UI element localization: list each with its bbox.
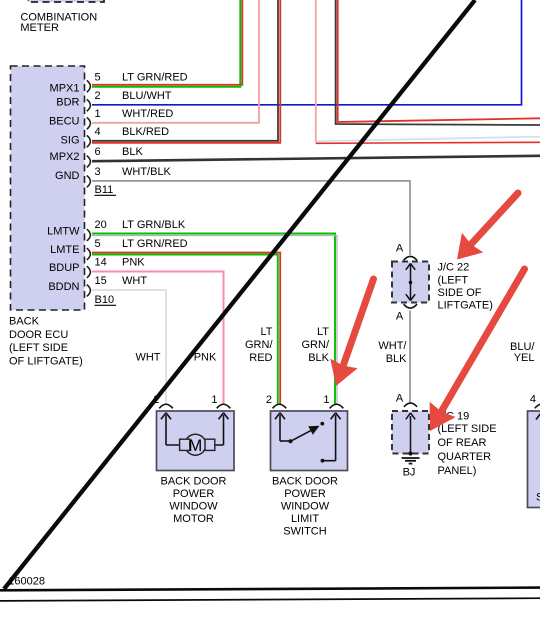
switch pivot wire <box>280 440 291 442</box>
switch caption <box>272 476 338 538</box>
svg-text:15: 15 <box>95 275 107 287</box>
svg-text:WINDOW: WINDOW <box>281 501 330 513</box>
motor internal wire <box>166 444 224 446</box>
right edge pin 4 connector arc <box>535 404 540 408</box>
svg-text:LT GRN/BLK: LT GRN/BLK <box>122 219 186 231</box>
J/C 22 bottom connector arc <box>404 304 417 308</box>
svg-text:WHT: WHT <box>135 352 160 364</box>
svg-text:WHT/: WHT/ <box>378 340 407 352</box>
svg-text:20: 20 <box>95 219 107 231</box>
svg-text:WHT: WHT <box>122 275 147 287</box>
J/C 22 caption <box>438 262 493 312</box>
pin hooks at ECU edge <box>87 80 91 296</box>
svg-text:1: 1 <box>211 394 217 406</box>
svg-text:BDUP: BDUP <box>49 262 80 274</box>
svg-text:160028: 160028 <box>8 575 45 587</box>
svg-text:BLK: BLK <box>122 146 143 158</box>
wire WHT/RED (pin 1 BECU) <box>92 0 259 123</box>
svg-text:LMTW: LMTW <box>47 225 80 237</box>
svg-text:BLK: BLK <box>308 352 329 364</box>
back door ECU box <box>11 66 85 310</box>
svg-text:WINDOW: WINDOW <box>169 501 218 513</box>
svg-text:MOTOR: MOTOR <box>173 513 214 525</box>
svg-text:BDR: BDR <box>56 97 79 109</box>
connector id B11 <box>95 184 117 196</box>
svg-text:A: A <box>396 243 404 255</box>
switch pin 1 internal arrow <box>323 413 341 461</box>
wire BLK/RED (pin 4 SIG) black part <box>92 0 278 141</box>
back door power window motor box <box>157 411 235 471</box>
J/C 19 internal arrow <box>406 413 415 454</box>
wire WHT/RED at right edge, red stripe <box>316 142 540 143</box>
svg-text:14: 14 <box>95 257 107 269</box>
wire BLK/RED at right edge, red stripe <box>338 0 540 122</box>
label LT GRN/RED column <box>245 326 273 364</box>
svg-text:LIMIT: LIMIT <box>291 513 319 525</box>
wire BLK/RED at right edge, black part <box>336 0 540 125</box>
svg-text:BLK/RED: BLK/RED <box>122 126 169 138</box>
svg-text:SIG: SIG <box>61 134 80 146</box>
svg-text:LMTE: LMTE <box>50 244 79 256</box>
svg-text:GND: GND <box>55 170 80 182</box>
wire WHT (pin 15 BDDN) <box>92 290 166 404</box>
motor pin 2 connector arc <box>159 404 173 408</box>
wire LT GRN/RED (pin 5 MPX1) red stripe <box>92 0 242 85</box>
svg-text:B10: B10 <box>95 294 115 306</box>
svg-text:(LEFT: (LEFT <box>438 275 469 287</box>
red annotation arrow 1 (to J/C 22) <box>457 193 518 260</box>
svg-text:SIDE OF: SIDE OF <box>438 287 482 299</box>
label LT GRN/BLK column <box>302 326 330 364</box>
wire WHT/BLK between J/C 22 and J/C 19 <box>409 311 411 403</box>
svg-text:MPX1: MPX1 <box>50 82 80 94</box>
svg-text:BACK DOOR: BACK DOOR <box>160 476 226 488</box>
J/C 22 top connector arc <box>404 256 417 260</box>
switch upper contact dot <box>320 422 324 426</box>
svg-text:BJ: BJ <box>403 467 416 479</box>
J/C 22 internal arrows <box>406 264 415 301</box>
combination meter box (top, mostly offscreen) <box>28 0 104 2</box>
svg-text:1: 1 <box>95 108 101 120</box>
red annotation arrow 3 (to switch pin 1) <box>330 279 373 386</box>
wire WHT/BLK (pin 3 GND) to J/C 22 <box>92 181 410 255</box>
svg-text:5: 5 <box>95 238 101 250</box>
right edge component box <box>528 411 540 508</box>
svg-text:6: 6 <box>95 146 101 158</box>
back door power window limit switch box <box>271 411 348 471</box>
svg-text:QUARTER: QUARTER <box>438 451 492 463</box>
J/C 22 node dot <box>409 281 413 285</box>
svg-text:S: S <box>536 492 540 504</box>
switch pin 2 connector arc <box>273 404 287 408</box>
motor pin 1 internal arrow <box>219 413 229 445</box>
svg-text:1: 1 <box>323 394 329 406</box>
svg-text:GRN/: GRN/ <box>302 339 330 351</box>
label BLU/YEL column <box>510 341 535 364</box>
label WHT/BLK column <box>378 340 407 365</box>
svg-text:J/C 22: J/C 22 <box>438 262 470 274</box>
svg-text:PANEL): PANEL) <box>438 465 477 477</box>
motor pin 1 connector arc <box>217 404 231 408</box>
svg-text:4: 4 <box>530 393 536 405</box>
switch pivot dot <box>289 439 293 443</box>
wire BLU/WHT (pin 2 BDR) <box>92 0 522 105</box>
svg-text:A: A <box>396 311 404 323</box>
svg-text:BLU/WHT: BLU/WHT <box>122 90 172 102</box>
switch lower contact dot <box>321 459 325 463</box>
svg-text:(LEFT SIDE: (LEFT SIDE <box>9 342 68 354</box>
svg-text:B11: B11 <box>95 184 114 196</box>
svg-text:SWITCH: SWITCH <box>283 526 326 538</box>
svg-text:(LEFT SIDE: (LEFT SIDE <box>438 423 497 435</box>
svg-text:LIFTGATE): LIFTGATE) <box>438 300 493 312</box>
svg-text:BDDN: BDDN <box>48 281 79 293</box>
svg-text:BACK DOOR: BACK DOOR <box>272 476 338 488</box>
switch arm with arrowhead <box>291 426 320 442</box>
svg-text:MPX2: MPX2 <box>50 151 80 163</box>
J/C 19 bottom node dot <box>408 451 412 455</box>
svg-text:YEL: YEL <box>514 352 535 364</box>
svg-text:LT: LT <box>317 326 329 338</box>
svg-text:WHT/RED: WHT/RED <box>122 108 173 120</box>
combination meter label <box>20 11 97 34</box>
J/C 19 top connector arc <box>404 403 417 407</box>
J/C 19 caption <box>438 411 497 478</box>
wire LT GRN/RED (pin 5 MPX1) green <box>92 0 240 87</box>
svg-text:PNK: PNK <box>122 257 145 269</box>
svg-text:OF LIFTGATE): OF LIFTGATE) <box>9 355 83 367</box>
bottom border line 2 <box>0 598 540 601</box>
motor pin 2 internal arrow <box>161 413 171 445</box>
svg-text:LT: LT <box>260 326 272 338</box>
svg-text:DOOR ECU: DOOR ECU <box>9 329 68 341</box>
pin numbers <box>95 71 107 287</box>
svg-text:GRN/: GRN/ <box>245 339 273 351</box>
wire LT GRN/RED (pin 5 LMTE) red stripe <box>92 253 280 405</box>
connector id B10 <box>95 294 117 306</box>
wire LT GRN/RED (pin 5 LMTE) green <box>92 255 278 405</box>
svg-text:PNK: PNK <box>194 352 217 364</box>
svg-text:RED: RED <box>249 352 272 364</box>
switch pin 1 connector arc <box>330 404 344 408</box>
svg-text:POWER: POWER <box>173 488 215 500</box>
svg-text:2: 2 <box>266 394 272 406</box>
svg-text:M: M <box>189 437 203 455</box>
svg-text:METER: METER <box>20 22 59 34</box>
wire WHT/RED at right edge, vertical <box>315 0 317 143</box>
svg-text:BACK: BACK <box>9 316 40 328</box>
wire color labels <box>122 71 188 287</box>
wire LT GRN/BLK (pin 20 LMTW) black stripe <box>92 236 337 405</box>
ECU caption <box>9 316 83 368</box>
svg-text:OF REAR: OF REAR <box>438 437 487 449</box>
svg-text:BLK: BLK <box>386 353 407 365</box>
svg-text:A: A <box>396 393 404 405</box>
svg-text:4: 4 <box>95 126 101 138</box>
svg-text:5: 5 <box>95 71 101 83</box>
red annotation arrow 2 (to J/C 19) <box>430 269 525 431</box>
svg-text:2: 2 <box>95 90 101 102</box>
motor symbol M <box>180 434 215 455</box>
svg-text:BECU: BECU <box>49 115 80 127</box>
wire BLK (pin 6 MPX2) <box>92 156 540 161</box>
J/C 22 box <box>392 262 429 303</box>
switch pin 2 internal arrow <box>275 413 285 441</box>
J/C 19 box <box>392 411 429 454</box>
svg-text:POWER: POWER <box>284 488 326 500</box>
ground symbol below J/C 19 <box>402 458 420 464</box>
wire WHT/RED at right edge, white part <box>317 137 540 142</box>
svg-text:LT GRN/RED: LT GRN/RED <box>122 238 188 250</box>
svg-text:3: 3 <box>95 166 101 178</box>
motor caption <box>160 476 226 526</box>
svg-text:WHT/BLK: WHT/BLK <box>122 166 172 178</box>
right edge internal arrow (partial) <box>536 413 540 420</box>
bottom border line 1 <box>0 588 540 591</box>
svg-text:LT GRN/RED: LT GRN/RED <box>122 71 188 83</box>
wire LT GRN/BLK (pin 20 LMTW) green <box>92 234 335 405</box>
wire BLK/RED (pin 4 SIG) red stripe <box>92 0 280 143</box>
wire PNK (pin 14 BDUP) <box>92 272 224 405</box>
